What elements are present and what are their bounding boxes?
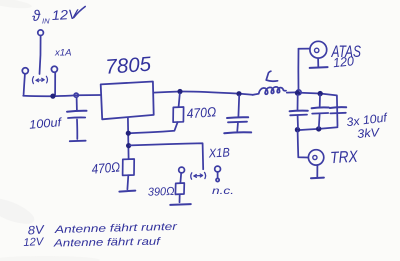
- svg-text:x1A: x1A: [54, 48, 72, 59]
- svg-text:12V: 12V: [23, 236, 45, 249]
- svg-text:390Ω: 390Ω: [148, 186, 175, 199]
- capacitor C5 plates: [330, 106, 346, 109]
- label L: [266, 71, 277, 81]
- wire R2 bottom stem: [126, 175, 129, 189]
- label ATAS: [331, 43, 361, 61]
- capacitor C4 plates: [312, 106, 329, 109]
- connector X1B mating arrow: [191, 172, 206, 179]
- svg-text:100uf: 100uf: [29, 115, 64, 132]
- wire X1A left pin stem: [24, 74, 25, 95]
- junction antenna node: [296, 90, 301, 95]
- inductor L coil: [253, 87, 287, 95]
- capacitor C3 plates: [290, 110, 308, 113]
- svg-text:470Ω: 470Ω: [186, 104, 216, 121]
- label n.c.: [212, 186, 234, 197]
- label x1A: [54, 48, 72, 59]
- wire antenna rail up to ATAS: [297, 49, 299, 90]
- ground C1: [70, 140, 86, 143]
- wire X1B right pin stub: [217, 172, 219, 178]
- svg-text:X1B: X1B: [208, 145, 231, 160]
- wire X1A right pin stem: [54, 73, 56, 95]
- svg-text:IN: IN: [42, 17, 50, 26]
- svg-text:3kV: 3kV: [357, 125, 381, 141]
- capacitor C1 100uf stem: [76, 97, 78, 110]
- label X1B: [208, 145, 231, 160]
- connector J2 TRX body: [308, 150, 323, 165]
- label 7805: [105, 53, 153, 79]
- wire bottom rail down to TRX: [298, 131, 308, 158]
- ground C2: [224, 131, 251, 134]
- resistor R2 470R body: [123, 159, 135, 175]
- capacitor C1 lower stem: [76, 120, 78, 140]
- wire Uin down to connector X1A: [40, 36, 41, 74]
- note 12V: [23, 236, 45, 249]
- ground TRX: [311, 177, 324, 180]
- connector X1A mating arrow: [32, 76, 47, 83]
- wire cap bank top rail: [301, 93, 337, 96]
- wire cap bank bottom rail: [296, 127, 337, 130]
- resistor R1 470R body: [173, 107, 184, 122]
- wire C3 top stem: [297, 95, 299, 110]
- wire X1B left pin to R3: [179, 173, 182, 183]
- connector J2 TRX center pin: [313, 155, 317, 159]
- connector X1A left pin: [22, 68, 28, 74]
- ground ATAS: [310, 66, 328, 69]
- label R3 390R: [148, 186, 175, 199]
- junction gnd pin / X1B: [126, 143, 131, 148]
- junction input rail: [50, 94, 55, 99]
- junction output node: [177, 89, 182, 94]
- svg-text:120: 120: [332, 53, 355, 70]
- wire coil to antenna rail: [287, 91, 296, 93]
- ground R3: [170, 203, 191, 206]
- node C1 tap: [74, 93, 78, 97]
- wire to connector X1B: [130, 143, 203, 169]
- note 12V Antenne faehrt rauf: [53, 236, 162, 250]
- wire 7805 gnd pin down: [127, 118, 130, 159]
- wire TRX shield stem: [316, 165, 318, 177]
- wire 7805 output: [153, 91, 252, 94]
- note 8V: [27, 222, 45, 237]
- svg-text:n.c.: n.c.: [212, 186, 234, 197]
- connector X1A right pin: [51, 66, 57, 72]
- junction bottom rail left: [295, 127, 300, 132]
- connector J1 ATAS center pin: [315, 48, 319, 52]
- svg-text:470Ω: 470Ω: [91, 159, 121, 176]
- wire ATAS stub: [299, 48, 310, 50]
- connector X1B right pin: [215, 166, 221, 172]
- label 120: [332, 53, 355, 70]
- capacitor C2 bottom stem: [236, 123, 239, 131]
- svg-text:Antenne fährt rauf: Antenne fährt rauf: [53, 236, 162, 250]
- capacitor C2 plates: [227, 116, 248, 119]
- label R2 470R: [91, 159, 121, 176]
- capacitor C2 top stem: [237, 96, 240, 117]
- svg-text:7805: 7805: [105, 53, 153, 79]
- node n.c.: [216, 178, 219, 181]
- label Uin 12V: [31, 7, 80, 26]
- wire C4 bottom stem: [318, 115, 321, 129]
- connector X1B left pin: [179, 167, 185, 173]
- junction gnd pin / R1: [126, 131, 131, 136]
- ground R2: [119, 191, 135, 192]
- junction top rail left: [295, 90, 300, 95]
- regulator U1 7805 body: [101, 82, 154, 120]
- connector J1 ATAS body: [310, 41, 327, 58]
- label 3kV: [357, 125, 381, 141]
- terminal Uin: [38, 30, 44, 36]
- label R1 470R: [186, 104, 216, 121]
- label 3x 10uf: [346, 110, 390, 129]
- junction C2 tap: [236, 91, 241, 96]
- capacitor C1 plates: [67, 110, 87, 113]
- wire C4 top stem: [319, 95, 321, 107]
- junction top rail mid: [318, 91, 323, 96]
- label 12V checkmark tail: [74, 7, 85, 18]
- note 8V Antenne faehrt runter: [53, 221, 177, 236]
- wire cap bank right side: [336, 96, 339, 127]
- label 100uf: [29, 115, 64, 132]
- resistor R3 390R body: [175, 183, 184, 194]
- label TRX: [330, 148, 359, 167]
- wire ATAS shield stem: [317, 58, 319, 66]
- wire input rail to 7805: [23, 95, 101, 96]
- wire C3 bottom stem: [297, 116, 299, 129]
- junction bottom rail mid: [316, 126, 321, 131]
- svg-text:TRX: TRX: [330, 148, 359, 167]
- wire R1 bottom to gnd pin: [129, 122, 178, 133]
- wire R3 bottom stem: [179, 194, 181, 202]
- wire R1 top stem: [179, 94, 180, 107]
